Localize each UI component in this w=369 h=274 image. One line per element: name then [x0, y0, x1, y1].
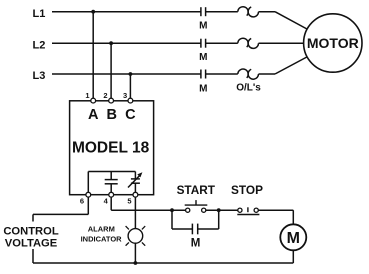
- svg-text:M: M: [191, 238, 201, 250]
- svg-text:C: C: [125, 107, 136, 123]
- svg-text:VOLTAGE: VOLTAGE: [5, 238, 58, 250]
- svg-text:3: 3: [123, 91, 127, 100]
- svg-text:INDICATOR: INDICATOR: [81, 234, 123, 243]
- svg-text:CONTROL: CONTROL: [3, 225, 58, 237]
- svg-text:M: M: [199, 21, 207, 32]
- svg-text:1: 1: [85, 91, 89, 100]
- svg-text:STOP: STOP: [231, 183, 263, 197]
- svg-text:A: A: [88, 107, 99, 123]
- svg-text:ALARM: ALARM: [88, 225, 115, 234]
- svg-text:6: 6: [80, 197, 84, 206]
- svg-text:M: M: [199, 84, 207, 95]
- svg-text:M: M: [287, 230, 300, 247]
- svg-text:B: B: [106, 107, 116, 123]
- svg-text:MODEL 18: MODEL 18: [72, 139, 150, 156]
- svg-text:START: START: [177, 183, 216, 197]
- svg-text:L3: L3: [33, 70, 46, 82]
- svg-text:L1: L1: [33, 8, 46, 20]
- svg-text:2: 2: [103, 91, 107, 100]
- svg-text:L2: L2: [33, 39, 46, 51]
- svg-text:5: 5: [127, 197, 131, 206]
- svg-text:O/L's: O/L's: [236, 83, 261, 94]
- svg-text:MOTOR: MOTOR: [307, 35, 359, 51]
- svg-text:M: M: [199, 52, 207, 63]
